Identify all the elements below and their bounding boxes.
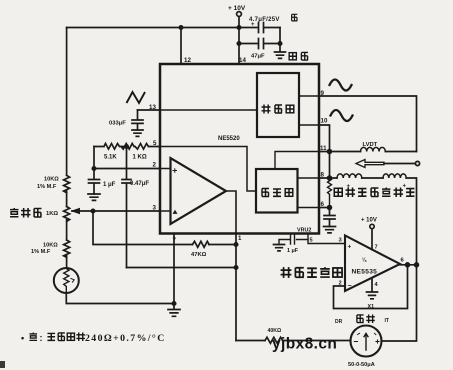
ground VRU2 <box>274 245 285 251</box>
wire output pin6 <box>400 264 417 266</box>
wire left vertical <box>66 28 68 176</box>
svg-text:X1: X1 <box>368 304 375 310</box>
wire pin8 <box>319 177 337 179</box>
wire thermistor bottom <box>66 293 174 304</box>
node pin8 junction <box>328 176 332 180</box>
node cap row2 <box>237 42 240 45</box>
svg-text:NE5520: NE5520 <box>218 136 240 142</box>
svg-text:LVDT: LVDT <box>363 142 378 148</box>
svg-text:13: 13 <box>149 104 156 111</box>
wire pin5 internal to demodulator <box>160 147 256 192</box>
svg-text:1: 1 <box>238 235 242 242</box>
LVDT primary winding <box>361 147 386 151</box>
svg-text:240Ω+0.7%/°C: 240Ω+0.7%/°C <box>85 333 166 344</box>
LVDT secondary winding A <box>337 174 362 178</box>
svg-text:+: + <box>251 22 255 28</box>
node pin7 ground <box>172 302 175 305</box>
svg-text:6: 6 <box>401 258 405 264</box>
node pin2 <box>92 167 95 170</box>
potentiometer 1K <box>64 207 70 241</box>
svg-text:+: + <box>403 184 407 190</box>
svg-text:yjbx8.cn: yjbx8.cn <box>272 336 337 353</box>
label sync phase adjust <box>334 188 342 196</box>
wire vertical pins 10/11 to 8 <box>329 152 331 179</box>
wire pin7 external <box>173 234 175 304</box>
sine symbol 1 <box>330 80 352 91</box>
label displacement <box>357 315 364 323</box>
resistor R1 10K top <box>64 175 70 206</box>
oscillator box <box>257 73 299 137</box>
capacitor C2 47uF <box>239 39 280 49</box>
label zero bias <box>10 208 18 217</box>
label tantalum <box>292 14 298 21</box>
op-amp U1 NE5520 box <box>160 64 319 234</box>
wire +10V vertical to pin 14 <box>238 16 240 64</box>
node pin3 feedback <box>91 209 94 212</box>
node pin6 junction <box>328 206 332 210</box>
wire opamp output to pin1 <box>226 191 236 234</box>
svg-text:11: 11 <box>320 145 327 152</box>
note prefix <box>29 332 37 340</box>
svg-text:10KΩ: 10KΩ <box>44 177 59 183</box>
wire feedback loop <box>334 265 408 309</box>
node between 5.1K and 1K <box>125 145 128 148</box>
resistor R2 10K bottom <box>64 240 70 268</box>
sine symbol 2 <box>331 110 353 121</box>
+10V terminal NE5535 <box>370 224 374 228</box>
wire demodulator to pin8 <box>298 177 320 179</box>
svg-text:12: 12 <box>184 57 191 64</box>
wire pin 12 drop <box>180 28 182 65</box>
label oscillator <box>262 105 271 114</box>
ground 0.33uF <box>132 130 143 136</box>
wire meter row left <box>236 340 265 342</box>
svg-text:1% M.F: 1% M.F <box>31 249 51 255</box>
node cap row1 <box>237 26 240 29</box>
svg-text:NE5535: NE5535 <box>352 269 378 276</box>
svg-text:7: 7 <box>173 237 177 244</box>
demodulator box <box>256 169 298 213</box>
wire between secondaries <box>362 177 383 179</box>
node 47K right <box>234 243 237 246</box>
svg-text:10: 10 <box>321 118 328 125</box>
svg-text:+: + <box>348 244 352 251</box>
wire pin1 vertical <box>235 234 237 341</box>
label isolation amplifier <box>281 267 292 278</box>
svg-text:2: 2 <box>339 281 342 287</box>
svg-text:1% M.F: 1% M.F <box>37 184 57 190</box>
wire demodulator to pin11 <box>275 152 319 170</box>
svg-text:3: 3 <box>153 205 157 212</box>
svg-text:+ 10V: + 10V <box>228 5 246 12</box>
wire pin3 internal <box>160 210 171 212</box>
resistor 1K pin5 <box>121 144 160 150</box>
resistor 40K <box>265 337 351 343</box>
wire pin10 <box>319 125 330 152</box>
svg-text:•: • <box>21 333 24 343</box>
resistor 47K <box>193 241 237 247</box>
meter M1 <box>351 326 382 357</box>
capacitor 1uF <box>89 169 100 195</box>
wire pin13 external <box>138 109 161 111</box>
wire feedback down-right <box>93 211 193 245</box>
svg-text:5: 5 <box>153 140 157 147</box>
svg-text:VRU2: VRU2 <box>297 228 311 234</box>
op-amp triangle internal <box>171 158 227 224</box>
svg-text:7: 7 <box>375 245 378 251</box>
capacitor 0.47uF <box>122 147 131 268</box>
svg-text:14: 14 <box>239 57 246 64</box>
resistor 5.1K pin5 <box>94 144 120 150</box>
wire pin3 external with wiper arrow <box>72 210 160 212</box>
svg-text:40KΩ: 40KΩ <box>268 328 282 334</box>
wire oscillator to pin10 <box>299 124 319 126</box>
svg-text:⅛: ⅛ <box>362 258 367 264</box>
svg-text:10KΩ: 10KΩ <box>43 243 58 249</box>
corner smudge <box>0 361 5 368</box>
svg-text:1KΩ: 1KΩ <box>46 211 58 217</box>
wire pin2 internal <box>160 168 171 170</box>
watermark <box>272 336 337 353</box>
wire pin4 ground <box>367 278 378 299</box>
svg-text:1 μF: 1 μF <box>287 248 299 254</box>
node cap right junction <box>278 42 281 45</box>
svg-text:+ 10V: + 10V <box>361 218 377 224</box>
wire 0.47uF bottom to pin1 column <box>127 267 237 269</box>
ground 1uF <box>88 194 100 200</box>
op-amp input marks <box>173 169 177 173</box>
wire pin2 external <box>94 168 160 170</box>
svg-text:6: 6 <box>321 201 325 208</box>
wire demodulator to pin6 <box>298 207 320 209</box>
capacitor 0.33uF <box>132 110 143 130</box>
capacitor pin6 <box>324 208 335 227</box>
svg-text:−: − <box>348 283 352 290</box>
wire top-left horizontal <box>67 27 239 29</box>
LVDT core arrow <box>356 160 384 168</box>
capacitor C1 4.7uF/25V <box>239 23 280 33</box>
label demodulator <box>262 189 269 197</box>
resistor phase vertical <box>328 178 332 208</box>
node pin12 top junction <box>179 26 182 29</box>
capacitor 1uF VRU2 <box>279 235 308 245</box>
wire meter right <box>382 265 417 341</box>
label ceramic <box>289 53 296 60</box>
svg-text:1 μF: 1 μF <box>103 182 116 188</box>
op-amp U2 NE5535 <box>345 236 400 292</box>
svg-text:0.47μF: 0.47μF <box>130 181 149 187</box>
ground top (ceramic) <box>275 44 286 59</box>
triangle wave symbol <box>127 92 146 103</box>
svg-text:4: 4 <box>375 282 379 288</box>
+10V terminal <box>237 12 242 17</box>
wire oscillator to pin9 <box>299 95 319 97</box>
wire pin11 <box>319 151 361 153</box>
svg-text:5.1K: 5.1K <box>104 155 117 161</box>
svg-text:1 KΩ: 1 KΩ <box>133 155 147 161</box>
svg-text:DR: DR <box>335 319 343 325</box>
ground main <box>168 304 180 317</box>
svg-text::: : <box>40 333 43 343</box>
node 0.47 bottom right <box>234 266 237 269</box>
wire right cap column <box>279 28 281 44</box>
svg-text:5: 5 <box>310 238 313 244</box>
wire VRU2 pin down <box>308 234 345 244</box>
LVDT secondary winding B <box>383 174 406 178</box>
svg-text:47KΩ: 47KΩ <box>191 252 207 258</box>
svg-text:IT: IT <box>385 318 389 324</box>
wire pin5 corner down <box>93 147 95 169</box>
svg-text:50-0-50μA: 50-0-50μA <box>348 362 375 368</box>
wire secondary to right column <box>406 178 416 265</box>
svg-text:2: 2 <box>153 162 157 169</box>
svg-text:47μF: 47μF <box>251 54 265 60</box>
node pin11 junction <box>328 150 332 154</box>
wire pin6 <box>319 207 330 209</box>
svg-text:9: 9 <box>321 90 325 97</box>
svg-text:033μF: 033μF <box>109 121 126 127</box>
wire pin9 <box>319 96 417 152</box>
thermistor RT <box>54 268 79 293</box>
wire pin13 internal to oscillator <box>160 109 257 111</box>
svg-text:3: 3 <box>339 238 343 244</box>
ground pin6 <box>324 227 336 233</box>
svg-text:8: 8 <box>321 172 325 179</box>
